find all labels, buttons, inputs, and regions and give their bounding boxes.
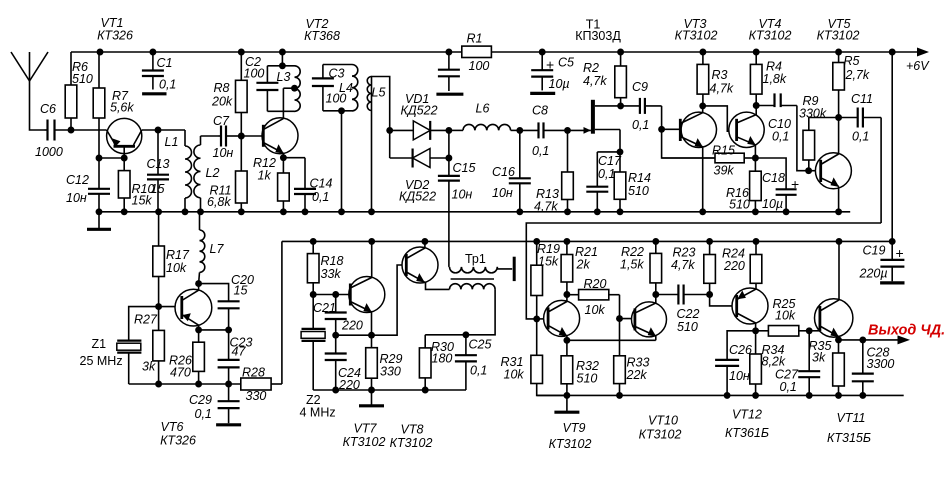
- label VT9: [549, 421, 592, 451]
- resistor R10: [118, 158, 154, 212]
- transistor T1 FET channel: [591, 100, 595, 134]
- svg-text:330: 330: [380, 365, 401, 379]
- svg-text:2k: 2k: [576, 258, 591, 272]
- svg-text:33k: 33k: [321, 267, 342, 281]
- node L4 tank bottom: [338, 107, 345, 211]
- svg-text:+: +: [546, 57, 554, 73]
- ground symbol VT9: [554, 395, 579, 412]
- wire L2 to C7: [201, 135, 219, 137]
- label VT7: [343, 422, 386, 450]
- svg-text:10н: 10н: [66, 191, 87, 205]
- wire output: [839, 336, 898, 343]
- wire VT7 collector: [371, 241, 373, 277]
- node VT12 collector: [752, 323, 759, 334]
- svg-text:VT6: VT6: [161, 420, 184, 434]
- svg-text:15k: 15k: [132, 194, 153, 208]
- svg-text:0,1: 0,1: [470, 364, 487, 378]
- svg-text:4,7k: 4,7k: [710, 82, 734, 96]
- transistor VT4: [729, 112, 764, 147]
- svg-text:10н: 10н: [213, 146, 234, 160]
- resistor R22: [620, 241, 662, 294]
- transformer Tr1 core: [451, 278, 494, 280]
- svg-text:КТ3102: КТ3102: [675, 29, 718, 43]
- wire antenna to C6: [30, 81, 45, 130]
- diode VD1: [390, 92, 449, 140]
- label VT1: [97, 16, 133, 43]
- resistor R33: [614, 319, 650, 396]
- svg-text:R17: R17: [166, 248, 190, 262]
- transistor VT6: [175, 289, 212, 326]
- svg-text:470: 470: [170, 366, 191, 380]
- svg-text:1,5k: 1,5k: [620, 258, 644, 272]
- svg-text:3k: 3k: [812, 351, 826, 365]
- wire +6V top rail: [71, 51, 921, 53]
- transistor VT11: [815, 299, 853, 337]
- label VT12: [725, 408, 769, 441]
- capacitor C7: [213, 114, 242, 160]
- capacitor C21: [313, 295, 363, 336]
- resistor R21: [561, 241, 598, 294]
- svg-text:510: 510: [577, 372, 598, 386]
- node R18/Z2/C21: [310, 291, 351, 298]
- label output Vyhod ChD red: [868, 323, 945, 339]
- node VT11 emitter: [835, 336, 842, 343]
- wire VT2 base: [241, 135, 263, 137]
- svg-text:R18: R18: [321, 254, 344, 268]
- transistor VT8: [402, 247, 438, 283]
- transformer Tr1 shield bar: [513, 257, 516, 281]
- svg-text:R2: R2: [583, 61, 599, 75]
- wire C11 line to VT9 base: [526, 223, 881, 319]
- wire VT2 collector: [282, 88, 284, 118]
- svg-text:R20: R20: [584, 277, 607, 291]
- svg-text:10н: 10н: [729, 369, 750, 383]
- capacitor C19 electrolytic: [859, 241, 905, 283]
- node VT3 collector: [699, 102, 706, 112]
- resistor R3: [697, 52, 734, 106]
- wire gate to T1: [568, 127, 591, 134]
- svg-text:КТ3102: КТ3102: [817, 29, 860, 43]
- transistor VT1: [107, 118, 142, 158]
- label VT8: [390, 423, 433, 451]
- transformer Tr1 secondary: [450, 284, 496, 335]
- svg-text:100: 100: [244, 67, 265, 81]
- svg-text:0,1: 0,1: [195, 407, 212, 421]
- tank circuit C3/L4: [312, 65, 358, 111]
- resistor R24: [722, 241, 762, 283]
- svg-text:510: 510: [72, 72, 93, 86]
- ground symbol R29: [359, 390, 384, 406]
- wire VT11 collector: [838, 241, 840, 300]
- node C16 junction: [516, 127, 523, 134]
- resistor R16: [726, 158, 761, 212]
- svg-text:C22: C22: [677, 307, 700, 321]
- wire VT8 emitter to Tr1: [424, 282, 449, 290]
- resistor R8: [211, 52, 247, 136]
- label VT4: [749, 17, 792, 43]
- svg-text:47: 47: [232, 345, 247, 359]
- output arrow: [898, 335, 911, 344]
- svg-text:4 MHz: 4 MHz: [300, 406, 336, 420]
- svg-text:C7: C7: [213, 114, 230, 128]
- svg-text:220: 220: [341, 319, 363, 333]
- resistor R15: [662, 144, 756, 178]
- svg-text:Тр1: Тр1: [465, 252, 486, 266]
- svg-text:L3: L3: [277, 70, 291, 84]
- svg-text:0,1: 0,1: [852, 130, 869, 144]
- svg-text:220: 220: [723, 259, 745, 273]
- svg-text:4,7k: 4,7k: [583, 74, 607, 88]
- svg-text:КТ3102: КТ3102: [549, 437, 592, 451]
- node VT11 base: [806, 327, 820, 334]
- capacitor C13: [147, 130, 170, 212]
- node VT2 emitter: [280, 153, 287, 161]
- node VT9 emitter: [563, 336, 570, 344]
- svg-text:C6: C6: [40, 102, 56, 116]
- svg-text:C21: C21: [313, 301, 336, 315]
- svg-text:C17: C17: [598, 154, 622, 168]
- svg-text:0,1: 0,1: [772, 130, 789, 144]
- capacitor C16: [492, 130, 531, 211]
- transistor VT12 PNP: [732, 288, 768, 324]
- svg-text:R3: R3: [712, 68, 728, 82]
- node C22/R23: [706, 291, 713, 298]
- svg-text:10µ: 10µ: [762, 197, 783, 211]
- svg-text:КТ326: КТ326: [97, 29, 133, 43]
- resistor R12: [253, 156, 289, 212]
- node VT9 base: [533, 315, 548, 322]
- node C25/R30 junction: [425, 331, 469, 338]
- resistor R17: [153, 212, 190, 307]
- svg-text:+: +: [896, 245, 904, 261]
- node bottom rail junctions 2: [563, 392, 866, 399]
- resistor R11: [207, 136, 247, 212]
- wire emitter to C14: [283, 157, 305, 159]
- capacitor C26: [715, 331, 756, 396]
- wire +6V drop to bottom rail: [891, 52, 893, 241]
- resistor R31: [501, 319, 567, 396]
- svg-text:8,2k: 8,2k: [762, 355, 786, 369]
- resistor R32: [561, 340, 599, 395]
- node VT4 collector: [753, 102, 760, 115]
- wire VT7 emitter to VT8 base: [372, 265, 407, 335]
- svg-text:L1: L1: [165, 135, 179, 149]
- node VT9 collector: [563, 291, 570, 301]
- node VT2 base divider: [238, 133, 245, 140]
- capacitor C6: [35, 102, 107, 159]
- inductor L6: [449, 102, 520, 131]
- svg-text:22k: 22k: [626, 368, 648, 382]
- svg-text:КТ3102: КТ3102: [639, 428, 682, 442]
- svg-text:+6V: +6V: [906, 59, 930, 73]
- wire oscillator bottom rail: [129, 381, 241, 388]
- label VT10: [639, 414, 682, 442]
- svg-text:C16: C16: [492, 165, 515, 179]
- svg-text:1,8k: 1,8k: [763, 72, 787, 86]
- svg-text:6,8k: 6,8k: [207, 195, 231, 209]
- svg-text:R1: R1: [467, 32, 483, 46]
- svg-text:20k: 20k: [211, 95, 233, 109]
- node VD right junction: [445, 127, 452, 162]
- svg-text:25 MHz: 25 MHz: [80, 354, 123, 368]
- wire base to Z1: [129, 307, 159, 341]
- resistor R20: [567, 277, 620, 317]
- transistor VT3: [680, 112, 716, 147]
- wire R23 to VT12 base: [710, 295, 737, 306]
- svg-text:10н: 10н: [452, 188, 473, 202]
- svg-text:10µ: 10µ: [549, 77, 570, 91]
- wire emitter coupling VT9-VT10: [567, 339, 656, 341]
- svg-text:C1: C1: [157, 56, 173, 70]
- svg-text:КТ368: КТ368: [304, 29, 340, 43]
- wire VT1 collector to tank: [142, 127, 185, 134]
- node ground rail junctions: [96, 208, 843, 215]
- svg-text:КТ315Б: КТ315Б: [827, 431, 871, 445]
- svg-text:C19: C19: [863, 244, 886, 258]
- svg-text:КД522: КД522: [399, 190, 436, 204]
- capacitor C27: [775, 331, 820, 396]
- resistor R7: [93, 52, 134, 158]
- svg-text:0,1: 0,1: [312, 190, 329, 204]
- svg-text:C11: C11: [851, 92, 873, 106]
- capacitor C18 electrolytic: [755, 158, 799, 212]
- wire Z2 bottom: [313, 387, 466, 394]
- svg-text:Z1: Z1: [92, 337, 107, 351]
- svg-text:0,1: 0,1: [598, 167, 615, 181]
- transistor VT2: [262, 118, 298, 154]
- svg-text:C9: C9: [632, 80, 648, 94]
- resistor R25: [756, 297, 810, 336]
- capacitor C28: [852, 340, 895, 396]
- svg-text:0,1: 0,1: [632, 118, 649, 132]
- capacitor C8: [520, 104, 568, 159]
- wire tank bottom edge: [267, 110, 294, 112]
- wire VT3 emitter to ground: [702, 147, 704, 212]
- resistor R29: [366, 335, 403, 390]
- transistor VT9: [544, 300, 580, 336]
- wire VT5 emitter: [838, 186, 840, 212]
- ground symbol C12: [87, 212, 111, 230]
- svg-text:КП303Д: КП303Д: [575, 29, 621, 43]
- svg-text:+: +: [791, 176, 799, 192]
- svg-text:КТ326: КТ326: [160, 434, 196, 448]
- inductor L1: [165, 130, 192, 212]
- svg-text:L6: L6: [476, 102, 490, 116]
- transistor VT5: [815, 153, 851, 189]
- svg-text:VT10: VT10: [648, 414, 678, 428]
- node VT6 collector: [195, 280, 202, 290]
- resistor R13: [534, 130, 573, 213]
- svg-text:C12: C12: [66, 173, 89, 187]
- wire VT8 collector: [424, 241, 426, 248]
- svg-text:R15: R15: [712, 144, 735, 158]
- capacitor C9: [621, 80, 662, 132]
- capacitor C17: [586, 152, 622, 212]
- node VT5 collector: [835, 114, 842, 154]
- svg-text:0,1: 0,1: [532, 144, 549, 158]
- wire VT3 base feedback to R15: [662, 129, 715, 158]
- svg-text:220µ: 220µ: [859, 267, 888, 281]
- resistor R35: [809, 339, 845, 395]
- svg-text:510: 510: [628, 184, 649, 198]
- crystal Z1: [80, 337, 142, 384]
- capacitor C25: [455, 335, 492, 390]
- svg-text:C3: C3: [329, 67, 345, 81]
- label T1: [575, 18, 621, 44]
- node C6/R6 junction: [68, 127, 75, 134]
- resistor R5: [833, 52, 870, 118]
- svg-text:C8: C8: [532, 104, 548, 118]
- wire VT3 collector to VT4 base: [703, 106, 737, 131]
- svg-text:510: 510: [729, 198, 750, 212]
- svg-text:КТ361Б: КТ361Б: [725, 426, 769, 440]
- svg-text:R28: R28: [242, 366, 265, 380]
- tank circuit C2/L3 top: [267, 52, 294, 69]
- capacitor C4 bypass: [436, 52, 463, 94]
- svg-text:4,7k: 4,7k: [671, 258, 695, 272]
- resistor R4: [750, 52, 786, 106]
- transistor VT7: [349, 277, 385, 313]
- svg-text:R8: R8: [214, 81, 230, 95]
- svg-text:10k: 10k: [166, 261, 187, 275]
- inductor L7: [199, 212, 225, 284]
- svg-text:100: 100: [326, 92, 347, 106]
- diode VD2: [390, 149, 449, 204]
- capacitor C14: [294, 158, 332, 212]
- resistor R28: [241, 366, 282, 404]
- capacitor C5 electrolytic: [530, 52, 574, 93]
- capacitor C2: [244, 55, 279, 111]
- +6V supply arrow: [906, 48, 930, 74]
- node VD1/VD2 left junction: [386, 127, 393, 158]
- resistor R34: [750, 331, 786, 396]
- wire VT10 emitter: [655, 336, 657, 340]
- capacitor C20: [199, 273, 254, 330]
- svg-text:0,1: 0,1: [159, 78, 176, 92]
- svg-text:100: 100: [469, 59, 490, 73]
- resistor R23: [671, 241, 715, 294]
- svg-text:0,1: 0,1: [780, 380, 797, 394]
- svg-text:VT7: VT7: [354, 422, 378, 436]
- capacitor C1: [142, 52, 176, 94]
- wire bottom mid ground rail: [537, 394, 904, 396]
- node VT6 emitter: [195, 325, 232, 333]
- inductor L3: [277, 66, 301, 112]
- wire VT1 base node: [96, 155, 128, 162]
- label VT3: [675, 17, 718, 43]
- svg-text:39k: 39k: [714, 164, 735, 178]
- capacitor C23: [218, 330, 253, 384]
- svg-text:C5: C5: [558, 56, 574, 70]
- svg-text:L7: L7: [210, 242, 225, 256]
- resistor R26: [169, 330, 204, 384]
- svg-text:15: 15: [234, 284, 248, 298]
- svg-text:КТ3102: КТ3102: [343, 435, 386, 449]
- node VT4 emitter: [752, 145, 759, 162]
- svg-text:VT11: VT11: [837, 411, 866, 425]
- svg-text:R5: R5: [844, 54, 860, 68]
- capacitor C24: [325, 335, 361, 392]
- svg-text:2,7k: 2,7k: [845, 68, 870, 82]
- antenna WA1: [11, 52, 48, 81]
- label VT11: [827, 411, 871, 445]
- node bottom rail junctions: [310, 238, 896, 245]
- svg-text:C13: C13: [147, 157, 170, 171]
- node C21/C24/emitter: [332, 332, 371, 339]
- svg-text:КД522: КД522: [401, 104, 438, 118]
- node VT10 collector: [652, 291, 659, 303]
- svg-text:3300: 3300: [867, 357, 895, 371]
- resistor R1: [462, 32, 492, 74]
- inductor L5: [367, 77, 389, 212]
- transistor VT10: [632, 302, 667, 337]
- node L3 tap: [283, 85, 298, 92]
- svg-text:C29: C29: [189, 393, 212, 407]
- resistor R2: [583, 52, 626, 106]
- capacitor C22: [656, 285, 710, 335]
- svg-text:330k: 330k: [799, 107, 827, 121]
- wire T1 drain: [595, 102, 624, 109]
- wire R20 to VT10 base: [616, 295, 635, 322]
- svg-text:1000: 1000: [35, 145, 63, 159]
- svg-text:R14: R14: [628, 171, 651, 185]
- label VT6: [160, 420, 196, 448]
- capacitor C15: [438, 158, 476, 202]
- transformer Tr1 primary: [449, 252, 512, 273]
- resistor R6: [65, 52, 93, 130]
- wire ground rail top section: [96, 211, 850, 213]
- svg-text:C14: C14: [310, 177, 333, 191]
- svg-text:5,6k: 5,6k: [110, 101, 134, 115]
- resistor R14: [614, 152, 651, 212]
- svg-text:330: 330: [246, 389, 267, 403]
- resistor R9: [799, 94, 839, 171]
- svg-text:C26: C26: [729, 343, 752, 357]
- svg-text:L2: L2: [206, 166, 220, 180]
- resistor R27: [134, 307, 164, 384]
- resistor R18: [307, 241, 343, 294]
- svg-text:VT8: VT8: [401, 423, 424, 437]
- svg-text:L5: L5: [372, 86, 386, 100]
- wire R28 up to bottom rail: [281, 241, 283, 384]
- svg-text:15: 15: [151, 182, 165, 196]
- wire C9 to VT3 base: [658, 106, 680, 133]
- wire VT12 emitter to R24: [755, 283, 757, 289]
- svg-text:3k: 3k: [142, 360, 156, 374]
- wire bottom +6V rail: [282, 240, 892, 242]
- svg-text:15k: 15k: [538, 255, 559, 269]
- inductor L2: [194, 136, 220, 212]
- wire T1 source: [595, 130, 624, 156]
- svg-text:Выход ЧД.: Выход ЧД.: [868, 323, 945, 339]
- crystal Z2: [300, 295, 336, 420]
- svg-text:VT9: VT9: [563, 421, 586, 435]
- svg-text:1k: 1k: [258, 169, 272, 183]
- wire C15 to Tr1 primary: [448, 181, 450, 267]
- capacitor C10: [756, 93, 797, 143]
- svg-text:R27: R27: [134, 313, 158, 327]
- node +6V rail junctions: [97, 49, 896, 56]
- svg-text:10k: 10k: [504, 368, 525, 382]
- node VT6 base: [155, 303, 182, 310]
- svg-text:180: 180: [432, 352, 453, 366]
- wire C11 feedback down: [880, 118, 882, 224]
- resistor R30: [419, 335, 454, 390]
- capacitor C11: [839, 92, 882, 144]
- node VT7 emitter: [368, 312, 375, 339]
- capacitor C29: [189, 384, 241, 425]
- svg-text:C18: C18: [762, 171, 785, 185]
